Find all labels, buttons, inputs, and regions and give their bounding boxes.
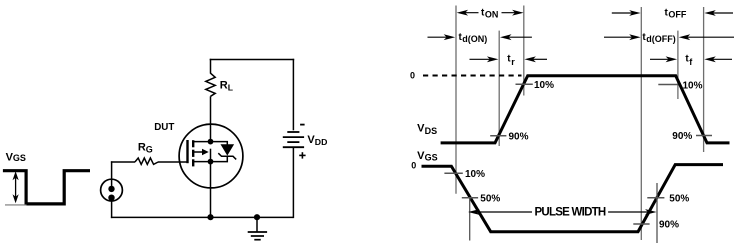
source stub xyxy=(193,161,210,163)
label tf xyxy=(685,54,693,67)
pulse width arrows xyxy=(468,209,657,215)
drain wire above circle xyxy=(210,59,212,74)
svg-text:R: R xyxy=(220,80,228,92)
td(OFF) arrows xyxy=(604,34,734,40)
label VGS xyxy=(417,150,438,163)
svg-text:0: 0 xyxy=(410,70,415,80)
tick 10% VGS fall xyxy=(444,172,462,174)
svg-text:ON: ON xyxy=(485,9,499,19)
ref line L2 (90% VDS) xyxy=(498,31,500,146)
marker line 50% rise xyxy=(656,183,658,243)
top rail xyxy=(210,59,295,61)
label tr xyxy=(507,54,515,67)
drain wire below RL xyxy=(210,96,212,141)
label td(OFF) xyxy=(642,32,675,44)
ground stub xyxy=(256,217,258,232)
tOFF arrows xyxy=(612,10,733,16)
body diode D1 (triangle) xyxy=(221,145,233,155)
MOSFET body circle U1 xyxy=(179,124,243,188)
label td(ON) xyxy=(459,32,488,44)
ref line L1 (turn-on start) xyxy=(455,6,457,194)
tick 90% VDS rise xyxy=(490,135,506,137)
channel segment bottom xyxy=(192,159,194,166)
wire: generator to gate (horizontal) xyxy=(111,161,135,163)
svg-text:f: f xyxy=(689,57,693,67)
label RL xyxy=(220,80,233,93)
pulse generator source xyxy=(101,179,123,201)
ground symbol xyxy=(248,232,267,240)
svg-text:GS: GS xyxy=(13,153,26,163)
tick 10% VDS fall xyxy=(658,84,678,86)
resistor RL xyxy=(206,73,215,96)
battery plate 3 (short) xyxy=(287,141,299,143)
tick 90% VDS fall xyxy=(696,135,712,137)
battery plate 2 (long) xyxy=(283,136,304,138)
body diode bottom wire xyxy=(211,156,228,161)
dashed zero line xyxy=(423,75,522,77)
svg-text:R: R xyxy=(138,141,146,153)
svg-text:GS: GS xyxy=(425,152,438,162)
label tON xyxy=(481,7,498,19)
amplitude double arrow xyxy=(13,171,19,203)
svg-text:PULSE WIDTH: PULSE WIDTH xyxy=(535,207,606,219)
svg-text:10%: 10% xyxy=(683,80,703,91)
wire: generator to bottom rail xyxy=(111,201,113,219)
battery VDD plate 1 (short) xyxy=(287,131,299,133)
body diode branch top wire xyxy=(211,142,228,145)
svg-text:DD: DD xyxy=(315,137,328,147)
tick 50% VGS rise xyxy=(647,197,664,199)
generator dot upper xyxy=(108,186,114,192)
battery plate 4 (long) xyxy=(283,146,304,148)
generator dot lower xyxy=(108,195,114,201)
ref line LA (turn-off start) xyxy=(640,7,642,240)
right rail lower xyxy=(292,148,294,218)
wire: RG to gate xyxy=(158,161,188,163)
svg-text:0: 0 xyxy=(411,160,416,170)
svg-text:90%: 90% xyxy=(672,131,692,142)
td(ON) arrows xyxy=(428,34,532,40)
tick 90% VGS rise xyxy=(633,223,649,225)
svg-text:90%: 90% xyxy=(509,131,529,142)
svg-text:L: L xyxy=(228,83,233,93)
drain stub xyxy=(193,141,210,143)
channel segment top xyxy=(192,140,194,147)
VDS waveform xyxy=(441,76,730,143)
svg-text:10%: 10% xyxy=(465,169,485,180)
channel segment middle xyxy=(192,150,194,157)
source junction dot xyxy=(208,159,214,165)
ref line LB (10% VDS fall) xyxy=(677,31,679,99)
body vertical xyxy=(210,149,212,162)
svg-text:DS: DS xyxy=(425,126,438,136)
tick 10% VDS rise xyxy=(516,83,533,85)
resistor RG xyxy=(135,158,158,164)
svg-text:50%: 50% xyxy=(480,193,500,204)
source wire below MOSFET xyxy=(210,162,212,218)
gate electrode xyxy=(186,140,188,163)
svg-text:10%: 10% xyxy=(534,80,554,91)
body diode zener bar xyxy=(218,153,236,159)
ground junction dot xyxy=(254,214,260,220)
tON arrows xyxy=(457,10,524,16)
label VGS (input pulse) xyxy=(6,151,26,163)
svg-text:G: G xyxy=(146,145,153,155)
tr arrows xyxy=(470,56,548,62)
svg-text:d(ON): d(ON) xyxy=(462,34,487,44)
label tOFF xyxy=(665,7,687,19)
svg-text:r: r xyxy=(511,57,515,67)
right rail upper xyxy=(292,59,294,131)
tick 50% VGS fall xyxy=(462,197,478,199)
VGS waveform xyxy=(422,165,724,232)
input pulse waveform xyxy=(3,171,90,204)
svg-text:50%: 50% xyxy=(669,193,689,204)
wire: down to pulse generator xyxy=(111,161,113,189)
svg-text:DUT: DUT xyxy=(154,122,174,133)
battery minus sign xyxy=(300,124,305,126)
tf arrows xyxy=(650,56,732,62)
ref line LC (90% VDS fall) xyxy=(703,7,705,152)
marker line 50% fall xyxy=(469,199,471,241)
svg-text:OFF: OFF xyxy=(668,9,686,19)
baseline reference (thin) xyxy=(5,204,27,206)
drain junction dot xyxy=(208,139,214,145)
label VDS xyxy=(417,122,437,136)
label RG xyxy=(138,141,153,154)
svg-text:90%: 90% xyxy=(659,219,679,230)
ref line L3 (10% VDS) xyxy=(523,6,525,96)
svg-text:d(OFF): d(OFF) xyxy=(646,34,676,44)
bottom rail junction dot (source) xyxy=(207,214,213,220)
battery plus sign xyxy=(299,152,305,158)
bottom rail xyxy=(111,216,294,218)
label VDD xyxy=(307,134,327,147)
body stub with arrow xyxy=(193,151,202,153)
